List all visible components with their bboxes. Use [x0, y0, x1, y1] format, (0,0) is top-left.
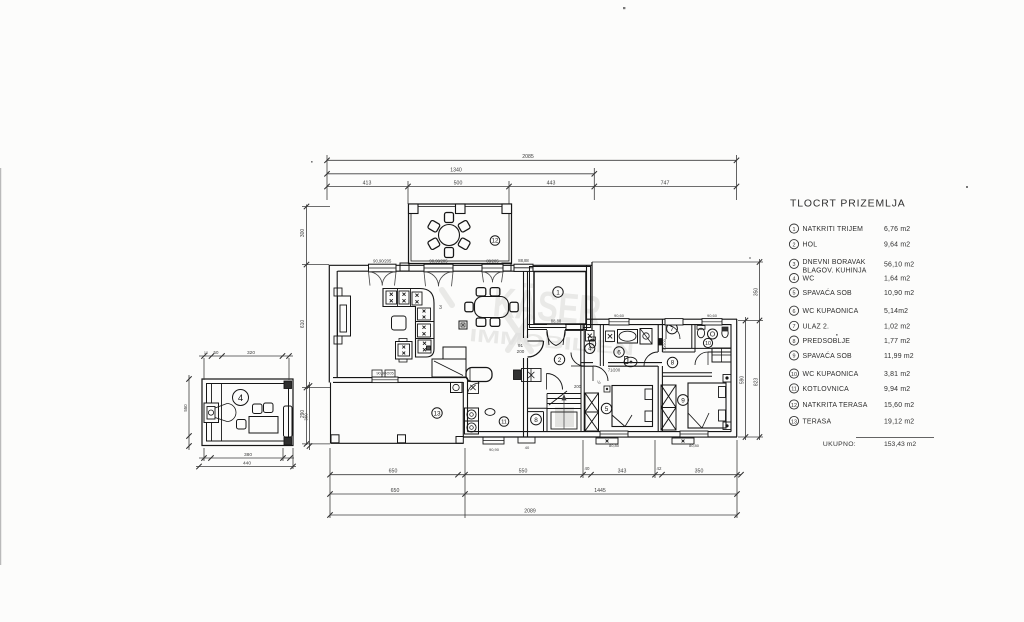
dark door post at divider — [659, 339, 663, 346]
small room 8 walls — [528, 407, 548, 409]
watermark faint K stroke — [442, 290, 531, 351]
wing top wall — [586, 318, 737, 320]
annex table — [249, 417, 278, 434]
double entry door arcs — [547, 330, 556, 346]
svg-text:350: 350 — [754, 288, 760, 297]
svg-text:8: 8 — [534, 417, 538, 424]
watermark logo text IMMOBILIEN — [469, 325, 635, 359]
bath6 shower — [640, 329, 652, 345]
svg-text:10: 10 — [791, 372, 797, 378]
kitchen island block — [396, 342, 413, 360]
sink outside room 11 — [451, 383, 463, 393]
room label 8 upper — [667, 357, 677, 367]
annex dimension lines — [183, 350, 312, 469]
svg-text:88,88: 88,88 — [551, 319, 562, 324]
annex building walls — [202, 379, 293, 446]
svg-text:360: 360 — [304, 413, 309, 421]
svg-text:6,76 m2: 6,76 m2 — [884, 226, 910, 233]
svg-text:413: 413 — [363, 180, 372, 186]
svg-text:7: 7 — [793, 324, 796, 330]
living room bottom wall — [333, 377, 467, 379]
svg-text:590: 590 — [740, 376, 746, 385]
svg-text:550: 550 — [183, 404, 188, 412]
annex dark corner blocks — [284, 381, 292, 389]
bedside mark bedroom5 — [604, 386, 610, 392]
entry door ULAZ2 — [665, 319, 683, 325]
covered terrace room 12 outline and pillars — [400, 204, 512, 271]
svg-text:650: 650 — [389, 468, 398, 474]
porch right outer wall — [586, 265, 588, 330]
svg-text:1,77 m2: 1,77 m2 — [884, 338, 910, 345]
svg-text:WC: WC — [803, 276, 815, 283]
svg-text:610: 610 — [300, 320, 306, 329]
window above bath6 — [609, 319, 629, 325]
svg-text:1: 1 — [556, 289, 560, 296]
svg-text:56,10 m2: 56,10 m2 — [884, 261, 914, 268]
small basin room 11 — [485, 409, 495, 416]
svg-text:SPAVAĆA SOB: SPAVAĆA SOB — [803, 351, 853, 360]
closet between 10 and 9 — [712, 348, 731, 362]
room label 4 — [585, 344, 595, 354]
svg-text:WC KUPAONICA: WC KUPAONICA — [803, 371, 859, 378]
svg-text:15,60 m2: 15,60 m2 — [884, 402, 914, 409]
nightstand dots bedroom9 — [723, 375, 731, 383]
svg-text:DNEVNI BORAVAK: DNEVNI BORAVAK — [803, 259, 866, 266]
svg-text:5: 5 — [605, 406, 609, 413]
boiler room 11 left wall — [462, 382, 464, 437]
svg-text:1: 1 — [793, 227, 796, 233]
room label 13 — [432, 408, 442, 418]
svg-text:3: 3 — [439, 305, 442, 311]
svg-text:4: 4 — [793, 276, 796, 282]
svg-text:50: 50 — [214, 350, 219, 355]
legend room list — [789, 199, 914, 426]
window W2 living room top wall — [424, 264, 453, 272]
svg-text:BLAGOV. KUHINJA: BLAGOV. KUHINJA — [803, 267, 867, 274]
scanner left edge — [0, 168, 2, 565]
svg-text:823: 823 — [754, 378, 760, 387]
svg-text:80⁄205: 80⁄205 — [486, 259, 499, 264]
top dimension lines 2085 / 1340 / 413 500 443 747 — [324, 154, 739, 204]
svg-text:TERASA: TERASA — [803, 419, 832, 426]
svg-text:HOL: HOL — [803, 242, 818, 249]
outer wall top — [329, 264, 592, 266]
bed bedroom5 — [612, 386, 653, 427]
svg-text:8: 8 — [793, 339, 796, 345]
window W3 living room top wall — [482, 264, 503, 272]
room10 toilet — [697, 328, 704, 338]
window room10 top — [702, 319, 722, 325]
chaise longue — [466, 368, 492, 382]
bath6 bathtub — [618, 330, 638, 344]
svg-text:343: 343 — [618, 468, 627, 474]
svg-text:2085: 2085 — [522, 154, 534, 160]
bath block bottom wall — [581, 362, 593, 364]
svg-text:90,60: 90,60 — [707, 313, 718, 318]
svg-text:88,88: 88,88 — [518, 258, 529, 263]
svg-text:40: 40 — [585, 466, 590, 471]
corner bench — [432, 359, 466, 377]
window W4 beside porch — [514, 264, 533, 271]
bed bedroom9 — [688, 383, 726, 428]
svg-text:40: 40 — [525, 445, 530, 450]
svg-text:200: 200 — [574, 384, 582, 389]
room label 7 — [667, 323, 678, 334]
svg-text:4: 4 — [238, 393, 243, 404]
svg-text:NATKRITI TRIJEM: NATKRITI TRIJEM — [803, 226, 864, 233]
wing bottom wall — [463, 436, 737, 438]
svg-text:10,90 m2: 10,90 m2 — [884, 290, 914, 297]
wing right outer wall — [730, 324, 732, 432]
svg-text:350: 350 — [695, 468, 704, 474]
svg-text:90,90⁄205: 90,90⁄205 — [373, 259, 392, 264]
annex projector/tv — [204, 403, 219, 423]
svg-text:500: 500 — [454, 180, 463, 186]
room label 2 — [554, 354, 564, 364]
watermark logo text KASER — [491, 278, 603, 334]
WC4 sink — [586, 331, 595, 342]
svg-text:NATKRITA TERASA: NATKRITA TERASA — [803, 402, 868, 409]
boiler room door arc — [468, 383, 480, 395]
svg-text:3: 3 — [793, 262, 796, 268]
door at divider — [644, 352, 658, 366]
outer wall left — [328, 265, 330, 383]
watermark gray block at stairs — [555, 407, 574, 427]
window W1 living room top wall — [369, 264, 397, 272]
svg-text:300: 300 — [300, 229, 306, 238]
svg-text:2089: 2089 — [524, 509, 536, 515]
svg-text:10: 10 — [204, 351, 208, 355]
wardrobe bedroom5 — [585, 393, 599, 412]
svg-text:SPAVAĆA SOB: SPAVAĆA SOB — [803, 288, 853, 297]
svg-text:12: 12 — [791, 403, 797, 409]
bath6 toilet — [624, 357, 637, 367]
svg-text:91: 91 — [518, 343, 524, 348]
svg-text:UKUPNO:: UKUPNO: — [823, 441, 856, 448]
svg-text:8: 8 — [671, 360, 675, 367]
dining table with six chairs — [465, 288, 518, 327]
door living to hall with arc — [528, 341, 544, 357]
door room8 to room10 — [695, 352, 708, 365]
svg-text:KOTLOVNICA: KOTLOVNICA — [803, 386, 850, 393]
svg-text:90,60: 90,60 — [614, 313, 625, 318]
svg-text:11: 11 — [791, 387, 797, 393]
terrace 13 pillars — [331, 435, 339, 443]
svg-text:2: 2 — [793, 243, 796, 249]
svg-text:11: 11 — [501, 419, 507, 425]
hall niche wardrobe hatch — [522, 369, 542, 382]
wardrobe bedroom9 — [661, 385, 676, 408]
room7-10 bottom wall — [662, 347, 731, 349]
svg-text:42: 42 — [657, 466, 662, 471]
svg-text:380: 380 — [244, 452, 252, 458]
svg-text:WC KUPAONICA: WC KUPAONICA — [803, 308, 859, 315]
svg-text:747: 747 — [661, 180, 670, 186]
porch door mat — [566, 324, 583, 331]
annex sofa — [284, 406, 293, 437]
svg-text:70⁄200: 70⁄200 — [662, 338, 667, 351]
annex chairs — [253, 404, 263, 414]
hall top wall — [528, 324, 548, 326]
scan specks — [311, 7, 968, 336]
room label 5 — [601, 403, 611, 413]
room10 round sink — [708, 329, 718, 339]
window bedroom5 bottom — [600, 431, 628, 437]
porch room 1 inner walls — [534, 272, 586, 325]
svg-text:9: 9 — [793, 354, 796, 360]
washer machines room 11 — [465, 408, 479, 421]
wall between WC4 and bath6 — [599, 325, 601, 367]
small dark dot in living room — [427, 346, 431, 350]
svg-text:ULAZ 2.: ULAZ 2. — [803, 323, 830, 330]
room label 12 — [490, 236, 500, 246]
right vertical dimension lines — [592, 259, 763, 440]
room8 upper bottom wall — [662, 372, 712, 374]
svg-text:10: 10 — [705, 341, 711, 347]
staircase with landing — [547, 366, 584, 432]
svg-text:11,99 m2: 11,99 m2 — [884, 353, 914, 360]
svg-text:13: 13 — [433, 410, 441, 417]
svg-text:200: 200 — [517, 349, 525, 354]
svg-text:½: ½ — [597, 380, 601, 385]
annex room label 4 — [233, 390, 249, 406]
svg-text:1,64 m2: 1,64 m2 — [884, 276, 910, 283]
svg-text:9,64 m2: 9,64 m2 — [884, 242, 910, 249]
bottom dimension lines 650/550/343/350, 650/1445, 2089 — [327, 440, 743, 518]
window bedroom9 bottom — [680, 431, 708, 437]
svg-text:1340: 1340 — [450, 168, 462, 174]
svg-text:443: 443 — [547, 180, 556, 186]
svg-text:12: 12 — [492, 239, 499, 245]
room label 9 — [678, 395, 689, 406]
svg-text:1,02 m2: 1,02 m2 — [884, 323, 910, 330]
WC4 toilet — [589, 339, 595, 348]
svg-text:5,14m2: 5,14m2 — [884, 308, 908, 315]
boiler cupboard room 11 — [468, 382, 479, 394]
svg-text:90,90: 90,90 — [489, 447, 500, 452]
room label 8 lower — [531, 414, 542, 425]
dark block beside hall wardrobe — [514, 370, 522, 380]
svg-text:9: 9 — [681, 397, 685, 404]
door hall to room 8 — [547, 374, 563, 390]
small square kitchen table — [392, 316, 407, 330]
middle divider wall — [657, 325, 659, 353]
svg-text:650: 650 — [391, 488, 400, 494]
svg-text:TLOCRT PRIZEMLJA: TLOCRT PRIZEMLJA — [790, 199, 906, 210]
wall between 7 and 10 — [691, 325, 693, 349]
left vertical dimension line 300/610/290 — [300, 204, 330, 447]
svg-text:13: 13 — [791, 419, 797, 425]
living room / hall divider wall — [523, 271, 525, 338]
svg-text:5: 5 — [793, 291, 796, 297]
bath block left wall — [580, 325, 582, 367]
door bath to bedroom5 — [593, 366, 608, 381]
svg-text:1445: 1445 — [594, 488, 606, 494]
svg-text:90,90⁄205: 90,90⁄205 — [429, 259, 448, 264]
svg-text:320: 320 — [247, 350, 255, 356]
room label 1 — [553, 287, 563, 297]
room label 10 — [703, 338, 712, 347]
window in living room bottom wall — [372, 377, 398, 383]
svg-text:PREDSOBLJE: PREDSOBLJE — [803, 338, 851, 345]
svg-text:71⁄200: 71⁄200 — [608, 368, 621, 373]
kitchen L-shaped counter with hob hatching — [383, 289, 434, 358]
WC4 door arc — [571, 353, 585, 367]
svg-text:440: 440 — [243, 460, 251, 466]
svg-text:550: 550 — [519, 468, 528, 474]
round dining table with six chairs on terrace — [427, 213, 470, 258]
svg-text:6: 6 — [793, 309, 796, 315]
room10 bidet — [722, 328, 728, 337]
room label 6 — [614, 347, 624, 357]
svg-text:3,81 m2: 3,81 m2 — [884, 371, 910, 378]
svg-text:6: 6 — [617, 349, 621, 356]
svg-text:9,94 m2: 9,94 m2 — [884, 386, 910, 393]
svg-text:153,43 m2: 153,43 m2 — [884, 441, 916, 448]
svg-text:19,12 m2: 19,12 m2 — [884, 419, 914, 426]
fireplace niche left wall — [338, 296, 351, 336]
terrace 13 outline — [330, 383, 332, 444]
floor drain square-in-square — [459, 321, 467, 329]
window sill marks below wing — [483, 437, 504, 444]
svg-text:2: 2 — [558, 357, 562, 364]
room label 11 — [499, 417, 509, 427]
bath6 sink — [606, 331, 615, 342]
